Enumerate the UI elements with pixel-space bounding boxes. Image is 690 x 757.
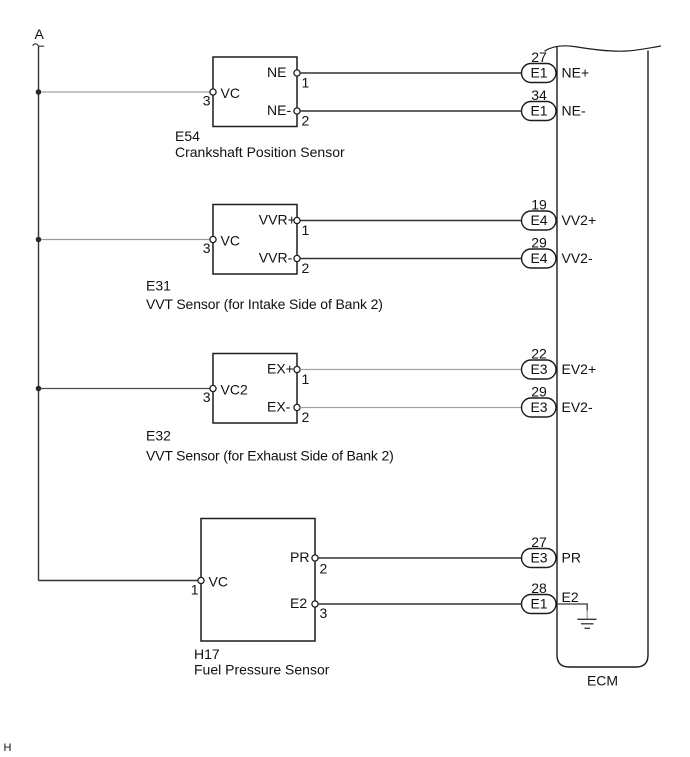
svg-text:28: 28 — [531, 580, 547, 596]
svg-text:E2: E2 — [290, 595, 307, 611]
svg-text:Crankshaft Position Sensor: Crankshaft Position Sensor — [175, 144, 345, 160]
svg-text:E1: E1 — [530, 596, 547, 612]
svg-text:Fuel Pressure Sensor: Fuel Pressure Sensor — [194, 661, 330, 677]
svg-text:29: 29 — [531, 235, 547, 251]
connector oval E4 pin 29 — [522, 249, 557, 268]
svg-text:VVR+: VVR+ — [259, 212, 296, 228]
pin 1 circle of H17 — [198, 577, 204, 583]
svg-text:E32: E32 — [146, 428, 171, 444]
svg-text:27: 27 — [531, 49, 547, 65]
wire EX+ from E32 pin 1 to ECM E3 22 — [300, 369, 521, 371]
svg-text:E1: E1 — [530, 65, 547, 81]
junction dot at E32 VC tap — [36, 386, 42, 392]
svg-text:EV2-: EV2- — [562, 399, 593, 415]
sensor H17 box — [201, 519, 315, 642]
pin 1 circle of E54 — [294, 70, 300, 76]
ECM body outline — [557, 47, 648, 668]
svg-text:E54: E54 — [175, 128, 200, 144]
wire PR from H17 pin 2 to ECM E3 27 — [318, 557, 521, 559]
svg-text:1: 1 — [191, 582, 199, 598]
svg-text:E3: E3 — [530, 550, 547, 566]
svg-text:EX+: EX+ — [267, 361, 294, 377]
ground — [578, 610, 597, 628]
svg-text:NE+: NE+ — [562, 65, 590, 81]
ECM wavy top edge — [545, 46, 662, 51]
wire E2 from H17 pin 3 to ECM E1 28 — [318, 603, 521, 605]
wire VC bus bottom horizontal to H17 pin 1 — [39, 580, 199, 582]
svg-text:VVT Sensor (for Intake Side of: VVT Sensor (for Intake Side of Bank 2) — [146, 296, 383, 312]
pin 3 circle of E54 — [210, 89, 216, 95]
svg-text:E3: E3 — [530, 361, 547, 377]
svg-text:2: 2 — [302, 409, 310, 425]
connector oval E1 pin 34 — [522, 102, 557, 121]
svg-text:3: 3 — [320, 605, 328, 621]
sensor E32 box — [213, 354, 297, 424]
svg-text:3: 3 — [203, 93, 211, 109]
svg-text:VVR-: VVR- — [259, 250, 293, 266]
svg-text:PR: PR — [290, 549, 309, 565]
svg-text:ECM: ECM — [587, 673, 618, 689]
connector oval E1 pin 27 — [522, 64, 557, 83]
svg-text:PR: PR — [562, 550, 581, 566]
svg-text:E1: E1 — [530, 103, 547, 119]
svg-text:2: 2 — [302, 113, 310, 129]
svg-text:3: 3 — [203, 389, 211, 405]
connector oval E3 pin 29 — [522, 398, 557, 417]
svg-text:VC: VC — [221, 233, 240, 249]
wire VVR- from E31 pin 2 to ECM E4 29 — [300, 258, 521, 260]
svg-text:22: 22 — [531, 346, 547, 362]
pin 3 circle of E32 — [210, 385, 216, 391]
sensor E31 box — [213, 205, 297, 275]
svg-text:NE-: NE- — [267, 102, 291, 118]
svg-text:VC: VC — [209, 574, 228, 590]
svg-text:H: H — [4, 742, 12, 754]
svg-text:EX-: EX- — [267, 399, 291, 415]
wire NE+ from E54 pin 1 to ECM E1 27 — [300, 72, 521, 74]
pin 2 circle of E32 — [294, 404, 300, 410]
svg-text:2: 2 — [320, 561, 328, 577]
svg-text:VV2-: VV2- — [562, 250, 593, 266]
svg-text:VV2+: VV2+ — [562, 212, 597, 228]
svg-text:VC: VC — [221, 85, 240, 101]
junction dot at E31 VC tap — [36, 237, 42, 243]
connector oval E3 pin 22 — [522, 360, 557, 379]
pin 3 circle of E31 — [210, 236, 216, 242]
svg-text:E31: E31 — [146, 278, 171, 294]
svg-text:A: A — [35, 26, 45, 42]
wire VC to E32 pin 3 — [41, 388, 210, 390]
svg-text:19: 19 — [531, 197, 547, 213]
svg-text:1: 1 — [302, 75, 310, 91]
wire VC to E31 pin 3 — [41, 239, 210, 241]
svg-text:2: 2 — [302, 260, 310, 276]
wire VVR+ from E31 pin 1 to ECM E4 19 — [300, 220, 521, 222]
wire VC to E54 pin 3 — [41, 91, 210, 93]
svg-text:NE-: NE- — [562, 103, 586, 119]
wire VC bus vertical — [38, 46, 40, 580]
wire E2 inside ECM to ground — [557, 604, 587, 611]
break symbol at node A — [33, 44, 44, 46]
svg-text:3: 3 — [203, 240, 211, 256]
svg-text:34: 34 — [531, 87, 547, 103]
svg-text:E4: E4 — [530, 212, 547, 228]
pin 2 circle of E54 — [294, 108, 300, 114]
pin 1 circle of E32 — [294, 366, 300, 372]
pin 3 circle of H17 — [312, 601, 318, 607]
svg-text:H17: H17 — [194, 646, 220, 662]
svg-text:1: 1 — [302, 222, 310, 238]
connector oval E4 pin 19 — [522, 211, 557, 230]
svg-text:VVT Sensor (for Exhaust Side o: VVT Sensor (for Exhaust Side of Bank 2) — [146, 447, 394, 463]
pin 2 circle of H17 — [312, 555, 318, 561]
svg-text:29: 29 — [531, 384, 547, 400]
connector oval E3 pin 27 — [522, 549, 557, 568]
sensor E54 box — [213, 57, 297, 127]
svg-text:1: 1 — [302, 371, 310, 387]
svg-text:E3: E3 — [530, 399, 547, 415]
wire NE- from E54 pin 2 to ECM E1 34 — [300, 110, 521, 112]
svg-text:E2: E2 — [562, 589, 579, 605]
pin 1 circle of E31 — [294, 217, 300, 223]
pin 2 circle of E31 — [294, 255, 300, 261]
wire EX- from E32 pin 2 to ECM E3 29 — [300, 407, 521, 409]
svg-text:VC2: VC2 — [221, 382, 248, 398]
svg-text:27: 27 — [531, 534, 547, 550]
connector oval E1 pin 28 — [522, 595, 557, 614]
svg-text:NE: NE — [267, 64, 286, 80]
svg-text:EV2+: EV2+ — [562, 361, 597, 377]
svg-text:E4: E4 — [530, 250, 547, 266]
junction dot at E54 VC tap — [36, 89, 42, 95]
